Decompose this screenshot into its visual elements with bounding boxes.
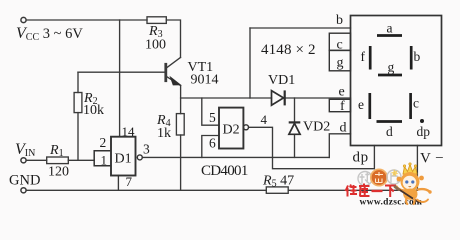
svg-text:VD2: VD2 [303, 120, 330, 135]
watermark red char 维 [346, 185, 358, 197]
resistor R2 [74, 93, 82, 113]
wire b horizontal to display [250, 27, 351, 29]
wire VD1 cathode to display e [285, 97, 351, 99]
svg-text:100: 100 [145, 38, 166, 53]
svg-text:a: a [387, 21, 393, 36]
D1 pin3 bubble [137, 155, 142, 160]
svg-text:4: 4 [261, 112, 268, 127]
svg-text:D1: D1 [115, 152, 132, 167]
pen [398, 189, 420, 203]
right arm [418, 189, 430, 191]
svg-text:V −: V − [420, 151, 444, 167]
wire R4 bottom to GND line [180, 135, 182, 190]
svg-text:b: b [414, 49, 421, 64]
diode VD2 [289, 122, 301, 134]
wire Vcc drop to D1 pin14 [119, 20, 121, 137]
sparkle [391, 169, 398, 177]
svg-text:f: f [361, 49, 366, 64]
wire emitter down to R4 [180, 86, 182, 114]
segment e bar [368, 93, 371, 119]
terminal GND [21, 188, 26, 193]
svg-text:d: d [340, 121, 347, 136]
body [403, 189, 417, 200]
crown [403, 165, 417, 175]
svg-text:d: d [386, 124, 393, 139]
legs [406, 199, 414, 205]
svg-text:c: c [413, 96, 419, 111]
resistor R4 [176, 114, 184, 135]
diode VD1 [272, 90, 285, 105]
watermark red char 一 [372, 190, 383, 192]
segment f bar [369, 46, 372, 70]
svg-text:7: 7 [126, 174, 133, 189]
seven segment digit [370, 36, 411, 122]
wire D2 pin6 [202, 136, 219, 158]
svg-text:4148 × 2: 4148 × 2 [261, 42, 316, 58]
terminal Vcc [21, 17, 26, 22]
svg-text:VD1: VD1 [268, 73, 295, 88]
resistor R5 [266, 187, 288, 193]
wire R1 to D1 input tab [68, 159, 94, 161]
svg-text:R5 47: R5 47 [262, 174, 294, 190]
svg-text:5: 5 [209, 110, 216, 125]
svg-text:14: 14 [122, 124, 136, 139]
pin tab c [329, 33, 350, 50]
terminal Vin [21, 158, 26, 163]
watermark red char 下 [385, 186, 396, 198]
transistor VT1 emitter diagonal [167, 77, 181, 86]
wire Vcc to R3 [26, 19, 147, 21]
svg-text:g: g [388, 60, 395, 75]
wire d riser and d horizontal [329, 134, 350, 158]
svg-text:g: g [337, 56, 344, 71]
ears [397, 177, 402, 182]
wire D1 pin3 output line [142, 156, 329, 158]
svg-text:6: 6 [209, 136, 216, 151]
wire VD2 top leg [294, 98, 296, 122]
wire D2 output to dp [249, 127, 375, 168]
wire GND line left [26, 189, 266, 191]
pin tab g [329, 50, 350, 70]
watermark gray ring glyph 片 [387, 170, 401, 184]
svg-text:dp: dp [417, 124, 431, 139]
wire emitter node to VD1 anode [181, 97, 272, 99]
svg-text:b: b [336, 13, 343, 28]
watermark monkey mascot [391, 163, 432, 204]
eyes [405, 180, 408, 183]
D1 input tab pins 1,2 [94, 151, 111, 166]
svg-text:D2: D2 [223, 123, 240, 138]
segment c bar [409, 93, 412, 119]
segment a [377, 34, 402, 37]
svg-text:10k: 10k [83, 103, 104, 118]
watermark red char 库 [359, 184, 370, 197]
wire b vertical [249, 28, 251, 98]
svg-text:2: 2 [100, 135, 107, 150]
wire R3 to collector corner [166, 20, 180, 58]
IC D2 [219, 108, 249, 149]
decimal point dot [420, 119, 424, 123]
svg-text:e: e [358, 97, 364, 112]
D2 pin4 bubble [244, 125, 249, 130]
wire D2 pin5 [202, 98, 219, 125]
IC D1 [94, 137, 142, 176]
svg-text:c: c [337, 38, 343, 53]
head [401, 172, 420, 191]
resistor R1 [47, 157, 69, 164]
wire VD2 bottom leg [294, 134, 296, 157]
transistor emitter arrow [171, 77, 181, 85]
transistor VT1 base bar [164, 64, 167, 80]
transistor VT1 collector diagonal [167, 58, 181, 68]
svg-text:120: 120 [48, 165, 69, 180]
svg-text:3: 3 [143, 142, 150, 157]
wire V- riser [416, 146, 418, 191]
wire R2 top leg [77, 72, 79, 92]
left arm [397, 187, 404, 191]
svg-text:1k: 1k [157, 126, 171, 141]
watermark gray ring glyph 找 [358, 172, 372, 186]
svg-text:f: f [340, 99, 345, 114]
wire base [78, 71, 165, 73]
wire D1 pin7 to GND [117, 176, 119, 191]
segment d [377, 120, 403, 123]
wire Vin to R1 [26, 159, 47, 161]
wire R2 bottom leg [77, 113, 79, 161]
svg-text:9014: 9014 [191, 73, 219, 88]
resistor R3 [147, 17, 166, 24]
svg-text:dp: dp [353, 150, 369, 166]
tail [417, 200, 428, 203]
svg-text:CD4001: CD4001 [201, 163, 248, 179]
wire R5 to V- riser [288, 189, 417, 191]
display box [329, 16, 441, 146]
watermark orange badge 芯 [371, 169, 387, 185]
svg-text:e: e [339, 85, 345, 100]
svg-text:1: 1 [101, 153, 108, 168]
segment b bar [410, 46, 413, 70]
svg-text:GND: GND [9, 173, 40, 189]
pin tab f [329, 99, 350, 111]
segment g [378, 74, 402, 77]
